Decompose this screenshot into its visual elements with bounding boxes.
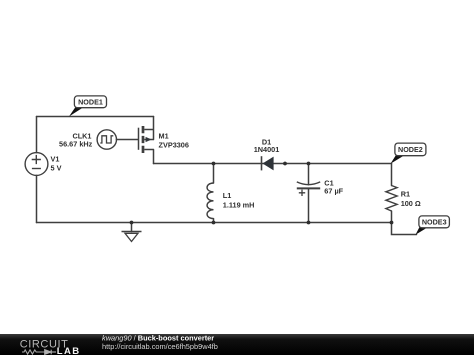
svg-text:V1: V1 [51,154,60,163]
node NODE2 [391,143,426,164]
wire: L1 top stub [213,164,215,184]
junction: C1 bottom [307,221,311,225]
junction: ground on bottom rail [130,221,134,225]
junction: C1 top [307,162,311,166]
wire: left rail V1 top [36,117,38,153]
wire: ground stub [131,223,133,232]
label R1 [401,190,421,208]
transistor M1 (PMOS) [139,126,154,153]
label L1 [223,191,255,210]
junction: diode output [283,162,287,166]
footer title line [102,333,214,342]
node NODE3 [416,216,450,235]
wire: top rail from V1 to M1 [37,116,154,118]
wire: L1 bottom stub [213,219,215,223]
wire: NODE3 stub [392,223,417,235]
ground [122,232,142,242]
label D1 [254,137,280,154]
svg-text:100 Ω: 100 Ω [401,199,421,208]
capacitor C1 (polarized) [297,182,320,196]
svg-text:NODE3: NODE3 [422,217,447,226]
svg-text:5 V: 5 V [51,164,62,173]
voltage source V1 [25,153,48,176]
label V1 [51,154,62,172]
clock source CLK1 [97,130,116,149]
wire: left rail V1 bottom [36,175,38,222]
inductor L1 [207,183,213,219]
svg-text:56.67 kHz: 56.67 kHz [59,139,93,148]
resistor R1 [386,186,397,212]
svg-text:1.119 mH: 1.119 mH [223,200,255,209]
label CLK1 [59,132,93,149]
wire: C1 bottom stub [308,188,310,222]
wire: C1 top stub [308,164,310,185]
wire: CLK1 to M1 gate [116,139,138,141]
svg-text:M1: M1 [159,131,169,140]
logo diode glyph [45,350,56,355]
wire: middle rail (M1 drain to R1) [154,163,392,165]
svg-text:ZVP3306: ZVP3306 [159,141,189,150]
wire: bottom rail [37,222,392,224]
svg-text:NODE2: NODE2 [398,145,423,154]
label M1 [159,131,189,149]
wire: R1 bottom to rail [391,211,393,223]
node NODE1 [69,96,107,117]
logo LAB text [57,346,81,357]
svg-text:LAB: LAB [57,346,81,355]
svg-text:http://circuitlab.com/ce6fh5pb: http://circuitlab.com/ce6fh5pb9w4fb [102,342,218,351]
wire: M1 source/body drop from top rail [153,117,155,140]
svg-text:R1: R1 [401,190,410,199]
diode D1 [262,156,274,170]
footer bar [0,334,474,355]
svg-text:1N4001: 1N4001 [254,145,280,154]
logo CIRCUIT text [20,338,69,350]
svg-text:L1: L1 [223,191,232,200]
junction: L1 bottom [212,221,216,225]
junction: L1 top [212,162,216,166]
footer url line [102,342,218,351]
label C1 [324,178,343,195]
svg-text:NODE1: NODE1 [78,98,103,107]
svg-text:67 µF: 67 µF [324,187,343,196]
junction: R1 bottom [390,221,394,225]
wire: R1 top drop from middle rail [391,164,393,186]
wire: M1 drain drop to middle rail [153,150,155,164]
logo resistor glyph [22,350,45,354]
